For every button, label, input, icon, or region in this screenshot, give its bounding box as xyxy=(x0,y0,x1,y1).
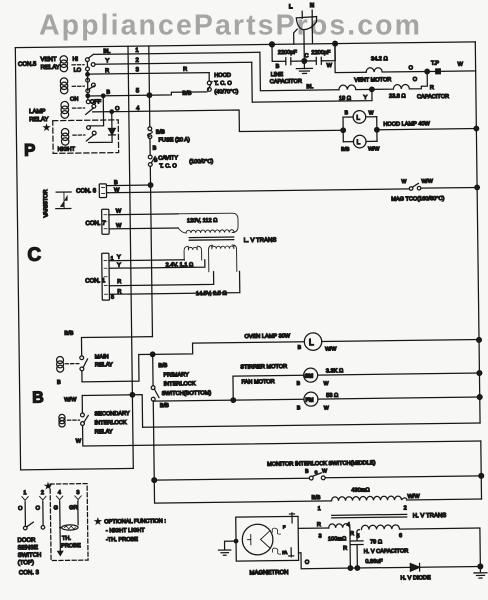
svg-text:Y: Y xyxy=(117,263,121,269)
svg-text:RELAY: RELAY xyxy=(95,362,113,368)
contact door sense b xyxy=(41,526,45,530)
svg-text:14.5V, 2.5 Ω: 14.5V, 2.5 Ω xyxy=(196,291,228,297)
svg-text:INTERLOCK: INTERLOCK xyxy=(95,420,127,426)
wire CON6 B xyxy=(106,184,150,187)
svg-text:B: B xyxy=(32,390,44,407)
svg-text:B: B xyxy=(153,146,157,152)
svg-text:SENSE: SENSE xyxy=(18,545,38,551)
svg-text:SWITCH(BOTTOM): SWITCH(BOTTOM) xyxy=(162,390,212,397)
wire CON1 Y2 xyxy=(109,260,205,269)
svg-text:O: O xyxy=(409,65,414,71)
node filament bottom xyxy=(348,566,353,571)
svg-text:O: O xyxy=(305,560,310,566)
svg-text:P: P xyxy=(24,141,36,160)
svg-text:L: L xyxy=(289,4,293,10)
svg-text:DOOR: DOOR xyxy=(17,538,36,544)
svg-text:HI: HI xyxy=(72,57,78,63)
svg-text:TH.: TH. xyxy=(62,536,72,542)
motor fan FM xyxy=(304,392,318,406)
node HV right bottom xyxy=(478,564,483,569)
connector CON.7 xyxy=(102,209,110,234)
contact K2 b xyxy=(91,83,95,87)
switch arm monitor xyxy=(312,473,321,477)
svg-text:OPTIONAL FUNCTION :: OPTIONAL FUNCTION : xyxy=(104,518,166,525)
svg-text:0.86uF: 0.86uF xyxy=(365,559,383,565)
svg-text:L. V TRANS: L. V TRANS xyxy=(244,238,277,244)
relay coil secondary interlock xyxy=(59,414,65,420)
inductor vent motor 34.2ohm xyxy=(366,67,427,72)
svg-text:SM: SM xyxy=(305,374,314,380)
TH probe tip arrow xyxy=(58,551,63,555)
wire BB to HV trans xyxy=(154,478,331,503)
svg-text:T. C. O: T. C. O xyxy=(159,163,177,169)
switch arm lamp relay xyxy=(86,108,94,115)
svg-text:R: R xyxy=(183,67,187,73)
LV trans core xyxy=(189,237,234,240)
svg-text:RELAY: RELAY xyxy=(41,65,60,71)
svg-text:B: B xyxy=(298,345,302,351)
node hood lamp rail xyxy=(474,126,479,131)
wire CON7 W2 xyxy=(109,227,178,230)
svg-text:5: 5 xyxy=(111,295,114,301)
capacitor line cap left 2200pF xyxy=(272,44,304,70)
magnetron box xyxy=(236,516,299,561)
svg-text:Y: Y xyxy=(363,95,367,101)
test point T.P xyxy=(436,69,441,74)
svg-text:1: 1 xyxy=(23,490,26,496)
svg-text:NIGHT: NIGHT xyxy=(58,147,76,153)
svg-text:(TOP): (TOP) xyxy=(18,560,34,566)
main relay input wire xyxy=(81,337,152,356)
svg-text:CON.5: CON.5 xyxy=(18,62,37,68)
wire bus2 to primary interlock xyxy=(152,354,154,385)
wire CON1 R2 xyxy=(109,271,240,294)
svg-text:-TH. PROBE: -TH. PROBE xyxy=(106,537,138,543)
switch arm door sense xyxy=(27,522,34,527)
HV trans primary 430mohm xyxy=(331,496,406,501)
magnetron ground xyxy=(218,539,238,555)
node hood lamp left xyxy=(341,128,346,133)
svg-text:CON. 1: CON. 1 xyxy=(85,278,106,284)
svg-text:R: R xyxy=(343,546,347,552)
svg-text:W: W xyxy=(369,110,374,116)
svg-text:O: O xyxy=(413,77,418,83)
svg-text:B/B: B/B xyxy=(158,363,167,369)
svg-text:1: 1 xyxy=(318,506,321,512)
svg-text:PROBE: PROBE xyxy=(61,543,81,549)
svg-text:79 Ω: 79 Ω xyxy=(370,539,383,545)
wire fan to rail xyxy=(318,397,480,399)
HV diode xyxy=(400,563,480,582)
wire TP to right rail W xyxy=(429,70,475,73)
secondary interlock output W xyxy=(83,420,481,446)
wire W return to rail xyxy=(143,423,480,427)
svg-text:H. V CAPACITOR: H. V CAPACITOR xyxy=(364,548,409,555)
node B tap xyxy=(86,94,90,98)
node plug right junction xyxy=(333,41,338,46)
svg-text:BL: BL xyxy=(103,49,110,55)
wire relay common segment xyxy=(86,62,88,100)
relay coil K2 xyxy=(60,78,67,85)
svg-text:B/B: B/B xyxy=(64,331,73,337)
svg-text:W: W xyxy=(327,63,333,69)
node diode tap xyxy=(110,110,114,114)
monitor interlock switch line xyxy=(154,476,481,480)
node oven lamp rail xyxy=(477,338,482,343)
main relay output wire B xyxy=(82,354,153,381)
lamp oven 30W xyxy=(304,333,322,351)
wire bus1 (L rail vertical) xyxy=(128,46,133,468)
fuse 20A xyxy=(147,127,152,139)
mech links dashed xyxy=(72,64,84,66)
HV capacitor 0.86uF xyxy=(351,531,409,568)
svg-text:MAIN: MAIN xyxy=(95,354,109,360)
wire F to filament winding xyxy=(298,527,328,529)
wire Y branch xyxy=(252,61,372,102)
contact primary interlock a xyxy=(151,386,155,390)
svg-text:O: O xyxy=(18,506,23,512)
relay coil main relay xyxy=(56,356,63,363)
HV trans core xyxy=(332,514,407,518)
secondary interlock input wire xyxy=(82,395,142,428)
wire oven lamp feed xyxy=(153,342,305,355)
node monitor left xyxy=(152,478,157,483)
svg-text:B/B: B/B xyxy=(311,495,320,501)
svg-text:RELAY: RELAY xyxy=(29,117,48,123)
magnetron terminal F xyxy=(289,513,294,523)
node bus1 secondary xyxy=(130,392,135,397)
node R tap xyxy=(86,73,90,77)
svg-text:Y: Y xyxy=(117,255,121,261)
magnetron heater coils xyxy=(272,528,280,534)
wire top mains line L xyxy=(15,42,475,48)
svg-text:★: ★ xyxy=(45,483,50,490)
relay coil night K4 xyxy=(61,128,68,135)
svg-text:ON: ON xyxy=(70,97,78,103)
contact monitor a xyxy=(309,476,313,480)
node plug left junction xyxy=(269,42,274,47)
svg-text:W/W: W/W xyxy=(325,346,336,352)
relay coil lamp relay K3 xyxy=(61,101,69,109)
wire HV primary right xyxy=(407,498,482,501)
switch arm main relay xyxy=(83,359,88,368)
contact main relay a xyxy=(80,356,84,360)
wire stirrer to rail xyxy=(318,373,480,375)
svg-text:HOOD LAMP 40W: HOOD LAMP 40W xyxy=(383,121,430,128)
wire HV right vertical xyxy=(479,528,481,566)
svg-text:OFF: OFF xyxy=(90,99,102,105)
svg-text:FUSE (20 A): FUSE (20 A) xyxy=(158,137,190,143)
svg-text:2200pF: 2200pF xyxy=(278,50,298,56)
plug P1 xyxy=(289,3,317,61)
svg-text:C: C xyxy=(27,245,41,266)
wire line5 B xyxy=(88,92,207,96)
svg-text:W/W: W/W xyxy=(407,494,420,500)
svg-text:3: 3 xyxy=(136,67,140,73)
svg-text:H. V TRANS: H. V TRANS xyxy=(413,513,447,519)
door sense pins xyxy=(22,490,82,503)
svg-text:W: W xyxy=(76,439,82,445)
wire CON7 W1 xyxy=(109,213,178,216)
svg-text:W: W xyxy=(324,405,329,411)
svg-text:W: W xyxy=(116,209,122,215)
svg-text:BL: BL xyxy=(306,84,313,90)
wire winding4 down xyxy=(349,528,352,568)
svg-text:FA: FA xyxy=(282,550,287,555)
wire line2 Y xyxy=(95,62,252,64)
wire bus2 lower continue xyxy=(152,401,155,480)
wire right HV drop xyxy=(480,441,483,499)
wire BL drop to 19ohm row xyxy=(260,51,339,90)
svg-text:R: R xyxy=(117,279,121,285)
svg-text:T. C. O: T. C. O xyxy=(214,81,232,87)
connector CON.6 xyxy=(99,184,106,198)
node CON6 B bus2 xyxy=(148,183,153,188)
lamp hood upper 40W xyxy=(353,111,366,124)
dashed box TH probe xyxy=(50,484,88,561)
motor stirrer SM xyxy=(304,368,318,382)
door sense switch wires xyxy=(25,502,43,526)
node TP junction xyxy=(425,69,430,74)
svg-text:B/B: B/B xyxy=(341,147,350,153)
svg-text:34.2 Ω: 34.2 Ω xyxy=(371,56,389,62)
svg-text:AppliancePartsPros.com: AppliancePartsPros.com xyxy=(39,10,420,42)
svg-text:W/W: W/W xyxy=(368,146,379,152)
mag TCO switch xyxy=(409,183,477,191)
svg-text:W: W xyxy=(458,62,464,68)
magnetron terminal FA xyxy=(289,548,294,557)
svg-text:CAPACITOR: CAPACITOR xyxy=(270,79,302,85)
svg-text:L: L xyxy=(309,337,314,347)
svg-text:O: O xyxy=(36,506,41,512)
wire N to vent motor row xyxy=(335,43,366,72)
wire line4 O xyxy=(93,109,344,134)
LV trans primary 120V 112ohm xyxy=(178,213,238,233)
wire hood lamp to rail xyxy=(377,129,476,130)
contact lamp relay a xyxy=(86,100,90,104)
svg-text:2: 2 xyxy=(404,505,407,511)
contact door sense a xyxy=(23,526,27,530)
svg-text:SWITCH: SWITCH xyxy=(18,553,42,559)
svg-text:120V, 112 Ω: 120V, 112 Ω xyxy=(187,218,218,224)
svg-text:G: G xyxy=(54,505,58,511)
contact primary interlock b xyxy=(151,397,155,401)
inductor vent 19ohm xyxy=(339,85,372,90)
contact K2 c xyxy=(86,89,90,93)
svg-text:B: B xyxy=(106,90,110,96)
contact vent relay LO xyxy=(86,67,90,71)
svg-text:T.P: T.P xyxy=(431,61,439,67)
node capacitor centre xyxy=(302,59,307,64)
svg-text:GR: GR xyxy=(69,505,77,511)
dashed box night section xyxy=(53,120,119,154)
switch arm night xyxy=(86,135,94,141)
wire line1 BL xyxy=(93,52,259,54)
HV filament winding 100mohm xyxy=(329,524,350,528)
svg-text:1: 1 xyxy=(135,48,139,54)
node Y join xyxy=(370,87,375,92)
node capacitor bottom xyxy=(355,566,360,571)
svg-text:B: B xyxy=(305,469,309,475)
TH probe wires xyxy=(60,502,79,551)
svg-text:R: R xyxy=(430,85,434,91)
contact vent relay HI xyxy=(85,58,89,62)
svg-text:STIRRER MOTOR: STIRRER MOTOR xyxy=(240,364,287,371)
svg-text:(100/0°C): (100/0°C) xyxy=(189,159,213,165)
LV secondary 2.4V 1.1ohm xyxy=(165,246,201,268)
svg-text:R: R xyxy=(117,289,121,295)
wire bottom border xyxy=(21,468,134,469)
switch arm secondary interlock xyxy=(84,415,89,422)
contact night b xyxy=(92,131,96,135)
svg-text:VENT MOTOR: VENT MOTOR xyxy=(354,77,391,83)
svg-text:(40/70°C): (40/70°C) xyxy=(214,89,238,95)
contact night a xyxy=(87,126,91,130)
svg-text:F: F xyxy=(283,524,286,529)
svg-text:CAVITY: CAVITY xyxy=(158,155,178,161)
svg-text:B: B xyxy=(57,380,61,386)
svg-text:B: B xyxy=(345,110,349,116)
switch arm primary interlock xyxy=(154,389,159,398)
svg-text:W: W xyxy=(114,188,120,194)
svg-text:VENT: VENT xyxy=(40,57,56,63)
ground HV xyxy=(474,566,487,578)
svg-text:W: W xyxy=(401,179,406,185)
svg-text:CAPACITOR: CAPACITOR xyxy=(417,94,449,100)
wire CON1 Y1 xyxy=(109,259,184,262)
svg-text:MAG TCO(160/60°C): MAG TCO(160/60°C) xyxy=(391,196,444,203)
svg-text:B/B: B/B xyxy=(156,129,165,135)
wire bus2 upper xyxy=(149,46,153,337)
svg-text:MONITOR INTERLOCK SWITCH(MIDDL: MONITOR INTERLOCK SWITCH(MIDDLE) xyxy=(267,460,376,467)
svg-text:2: 2 xyxy=(135,58,139,64)
relay coil vent relay K1 xyxy=(60,56,67,63)
svg-text:B/B: B/B xyxy=(182,91,191,97)
svg-text:L: L xyxy=(356,115,360,122)
svg-text:MAGNETRON: MAGNETRON xyxy=(249,570,288,576)
svg-text:3.3K Ω: 3.3K Ω xyxy=(326,368,344,374)
svg-text:CON. 3: CON. 3 xyxy=(19,570,40,576)
TH probe thermistor xyxy=(60,525,78,530)
magnetron tube xyxy=(242,524,273,555)
hood TCO switch xyxy=(207,73,212,92)
svg-text:N: N xyxy=(310,3,314,9)
svg-text:FM: FM xyxy=(305,398,313,404)
svg-text:★: ★ xyxy=(95,518,100,525)
wire oven lamp to rail xyxy=(322,340,479,342)
svg-text:INTERLOCK: INTERLOCK xyxy=(164,381,196,387)
svg-text:HOOD: HOOD xyxy=(214,73,231,79)
connector CON.1 xyxy=(102,253,110,300)
svg-text:5: 5 xyxy=(136,88,140,94)
svg-text:O: O xyxy=(115,106,120,112)
svg-text:2200pF: 2200pF xyxy=(311,50,331,56)
wire line3 R xyxy=(88,73,210,75)
svg-text:100mΩ: 100mΩ xyxy=(328,536,347,542)
svg-text:LINE: LINE xyxy=(271,72,284,78)
inductor vent 23.8ohm capacitor branch xyxy=(374,73,428,89)
wire CON1 R1 xyxy=(109,272,214,286)
svg-text:430mΩ: 430mΩ xyxy=(351,487,370,493)
diode D1 xyxy=(109,128,116,134)
LV secondary 14.5V 2.5ohm xyxy=(195,245,237,297)
svg-text:Y: Y xyxy=(105,58,109,64)
node lamp feed tap xyxy=(101,94,105,98)
svg-text:- NIGHT LIGHT: - NIGHT LIGHT xyxy=(106,528,145,534)
svg-text:o: o xyxy=(315,470,318,476)
svg-text:B: B xyxy=(276,64,280,70)
wire night to diode xyxy=(89,135,112,142)
svg-text:W: W xyxy=(324,381,329,387)
svg-text:B: B xyxy=(114,180,118,186)
node hood lamp right xyxy=(375,127,380,132)
svg-text:PRIMARY: PRIMARY xyxy=(163,372,189,378)
svg-text:W/W: W/W xyxy=(421,179,432,185)
cavity TCO switch xyxy=(148,155,155,166)
svg-text:W: W xyxy=(322,468,327,474)
svg-text:CON. 7: CON. 7 xyxy=(85,221,106,227)
contact lamp relay b xyxy=(92,104,96,108)
svg-text:6: 6 xyxy=(399,533,402,539)
svg-text:2: 2 xyxy=(41,490,44,496)
wire left rail xyxy=(15,48,20,470)
lamp hood lower xyxy=(353,135,366,148)
wire stirrer fan feeds xyxy=(153,375,304,401)
svg-text:R: R xyxy=(350,531,354,537)
contact secondary interlock b xyxy=(81,422,85,426)
svg-text:3: 3 xyxy=(76,490,79,496)
svg-text:W: W xyxy=(116,223,122,229)
contact monitor b xyxy=(321,476,325,480)
svg-text:B: B xyxy=(297,381,301,387)
contact K2 a xyxy=(86,78,90,82)
svg-text:FAN MOTOR: FAN MOTOR xyxy=(241,379,274,385)
node monitor right xyxy=(479,473,484,478)
svg-text:RELAY: RELAY xyxy=(95,429,113,435)
node fan stirrer tap xyxy=(231,398,236,403)
svg-text:W/W: W/W xyxy=(64,397,77,403)
wire FA out xyxy=(298,551,410,568)
capacitor line cap right 2200pF xyxy=(304,44,335,70)
svg-text:R: R xyxy=(317,522,321,528)
contact secondary interlock a xyxy=(81,413,85,417)
svg-text:53 Ω: 53 Ω xyxy=(326,393,339,399)
node line5 bus2 xyxy=(147,93,152,98)
node stirrer rail xyxy=(477,371,482,376)
ground line capacitor xyxy=(296,61,312,74)
svg-text:LO: LO xyxy=(74,68,82,74)
node mag tco rail xyxy=(475,185,480,190)
svg-text:3: 3 xyxy=(318,534,321,540)
svg-text:LAMP: LAMP xyxy=(29,109,45,115)
svg-text:B/B: B/B xyxy=(160,403,169,409)
node oven lamp junction xyxy=(150,352,155,357)
wire CON6 W to mag tco xyxy=(107,189,410,193)
svg-text:R: R xyxy=(105,68,109,74)
contact main relay b xyxy=(80,367,84,371)
varistor RV1 xyxy=(56,192,72,209)
svg-text:VARISTOR: VARISTOR xyxy=(43,189,49,217)
wire right rail W xyxy=(475,42,480,423)
svg-text:B: B xyxy=(297,405,301,411)
wire night feed xyxy=(90,96,104,126)
svg-text:★: ★ xyxy=(44,124,49,131)
svg-text:OVEN LAMP 30W: OVEN LAMP 30W xyxy=(244,333,290,340)
svg-text:SECONDARY: SECONDARY xyxy=(94,411,130,417)
svg-text:CON. 6: CON. 6 xyxy=(76,188,97,194)
svg-text:4: 4 xyxy=(58,490,61,496)
hood lamp branch xyxy=(343,117,377,142)
